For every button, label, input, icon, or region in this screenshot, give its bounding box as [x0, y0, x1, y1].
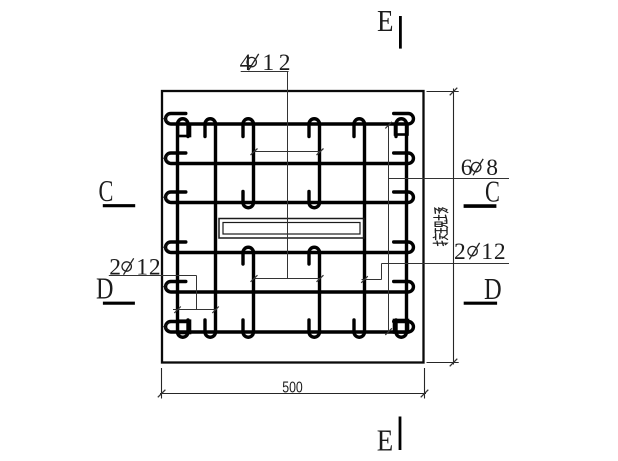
- vertical rebar V4 lower segment (Ø12): [309, 247, 320, 337]
- section mark E bottom line: [399, 417, 402, 451]
- svg-text:D: D: [484, 272, 502, 306]
- section mark C right line: [464, 204, 497, 208]
- label 2Ø12 right text: [454, 239, 506, 265]
- embedded channel slot inner rectangle: [223, 223, 360, 235]
- svg-text:12: 12: [262, 50, 295, 76]
- vertical rebar V3 lower segment (Ø12): [243, 247, 254, 337]
- label 6Ø8 text: [461, 155, 499, 181]
- svg-text:12: 12: [136, 254, 161, 280]
- corner bend detail bottom-left: [178, 321, 190, 333]
- vertical rebar V5 (Ø12) with hooks: [354, 119, 365, 338]
- label 2Ø12 right underline: [382, 263, 510, 265]
- horizontal rebar H4 (Ø8) with hooks: [166, 242, 414, 253]
- section mark E top line: [399, 16, 402, 49]
- vertical rebar V4 upper segment (Ø12): [309, 119, 320, 208]
- svg-text:4: 4: [240, 50, 252, 76]
- bottom dimension line: [158, 390, 429, 398]
- embedded channel slot outer rectangle: [219, 219, 364, 239]
- label 4Ø12 text: [240, 50, 296, 76]
- dimension line between V3 and V4 (lower): [251, 275, 324, 282]
- horizontal rebar H5 (Ø8) with hooks: [166, 282, 414, 293]
- svg-text:C: C: [99, 173, 114, 207]
- hook end tick marks (left side): [164, 114, 170, 330]
- section mark C left line: [103, 204, 135, 207]
- concrete pad outline: [162, 91, 424, 363]
- svg-text:12: 12: [481, 239, 506, 265]
- bottom dimension extension lines: [162, 368, 425, 399]
- label 4Ø12 leader vertical: [287, 72, 289, 279]
- label 2Ø12 left underline: [109, 275, 197, 277]
- label 4Ø12 underline: [241, 71, 289, 73]
- svg-text:C: C: [485, 174, 500, 208]
- vertical rebar V1 (corner Ø12) with hooks: [178, 119, 189, 338]
- section mark D right line: [464, 302, 497, 305]
- corner bend detail top-left: [178, 124, 190, 136]
- svg-text:E: E: [377, 424, 393, 458]
- vertical rebar V3 upper segment (Ø12): [243, 119, 254, 208]
- label 6Ø8 leader vertical: [385, 122, 392, 335]
- label 6Ø8 underline: [389, 178, 510, 180]
- section mark D left line: [103, 302, 135, 305]
- corner bend detail bottom-right: [394, 320, 408, 333]
- dimension text 按现场 (rotated): [433, 208, 448, 246]
- vertical rebar V6 (Ø12) with hooks: [396, 119, 407, 338]
- svg-text:D: D: [96, 272, 113, 307]
- horizontal rebar H3 (Ø8) with hooks: [166, 192, 414, 203]
- right dimension line: [450, 88, 458, 367]
- label 2Ø12 left text: [109, 254, 161, 280]
- vertical rebar V2 (Ø12) with hooks: [205, 119, 216, 338]
- svg-text:2: 2: [454, 239, 466, 265]
- right dimension extension lines: [427, 92, 459, 363]
- svg-text:E: E: [377, 4, 393, 38]
- horizontal rebar H1 (Ø8) with hooks: [166, 114, 414, 125]
- svg-text:500: 500: [282, 379, 303, 397]
- label 2Ø12 right bracket: [361, 264, 381, 283]
- dimension line between V3 and V4 (upper): [251, 149, 324, 156]
- label 2Ø12 left bracket: [173, 276, 219, 314]
- horizontal rebar H6 (Ø8) with hooks: [166, 322, 414, 333]
- svg-text:6: 6: [461, 155, 473, 181]
- corner bend detail top-right: [395, 124, 408, 135]
- horizontal rebar H2 (Ø8) with hooks: [166, 153, 414, 164]
